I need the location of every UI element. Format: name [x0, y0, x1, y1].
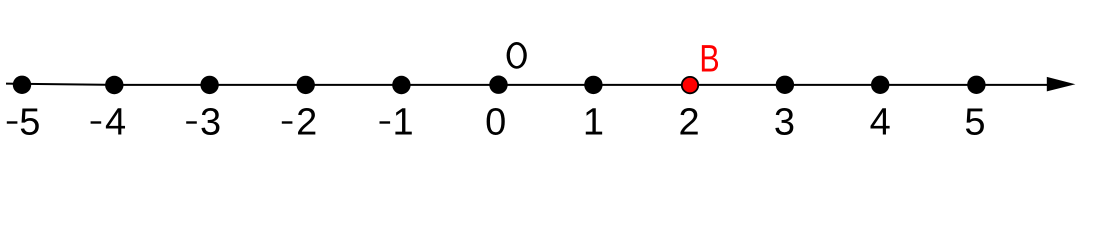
number line axis	[6, 84, 1050, 85]
svg-text:2: 2	[679, 102, 700, 144]
point 3	[776, 76, 794, 94]
svg-text:4: 4	[870, 102, 891, 144]
svg-text:0: 0	[485, 102, 506, 144]
arrowhead	[1047, 77, 1076, 92]
point 4	[871, 76, 889, 94]
label -2 minus bar	[282, 121, 293, 123]
svg-text:4: 4	[105, 102, 126, 144]
label -5 minus bar	[7, 121, 18, 123]
svg-text:3: 3	[774, 102, 795, 144]
point -1	[392, 76, 410, 94]
svg-text:3: 3	[200, 102, 221, 144]
svg-text:2: 2	[296, 102, 317, 144]
origin label O (drawn as double ellipse to match narrow glyph)	[507, 42, 527, 69]
point -2	[297, 76, 315, 94]
point -4	[105, 76, 123, 94]
label -3 minus bar	[186, 121, 197, 123]
point 0	[489, 76, 507, 94]
svg-text:5: 5	[964, 102, 985, 144]
svg-text:1: 1	[583, 102, 604, 144]
svg-text:B: B	[699, 38, 719, 80]
svg-text:1: 1	[392, 102, 413, 144]
svg-text:5: 5	[19, 102, 40, 144]
point 5	[967, 76, 985, 94]
label -1 minus bar	[380, 121, 391, 123]
label -4 minus bar	[91, 121, 102, 123]
point -3	[200, 76, 218, 94]
point 1	[584, 76, 602, 94]
point B at 2 (red)	[682, 77, 698, 93]
point -5	[13, 76, 31, 94]
